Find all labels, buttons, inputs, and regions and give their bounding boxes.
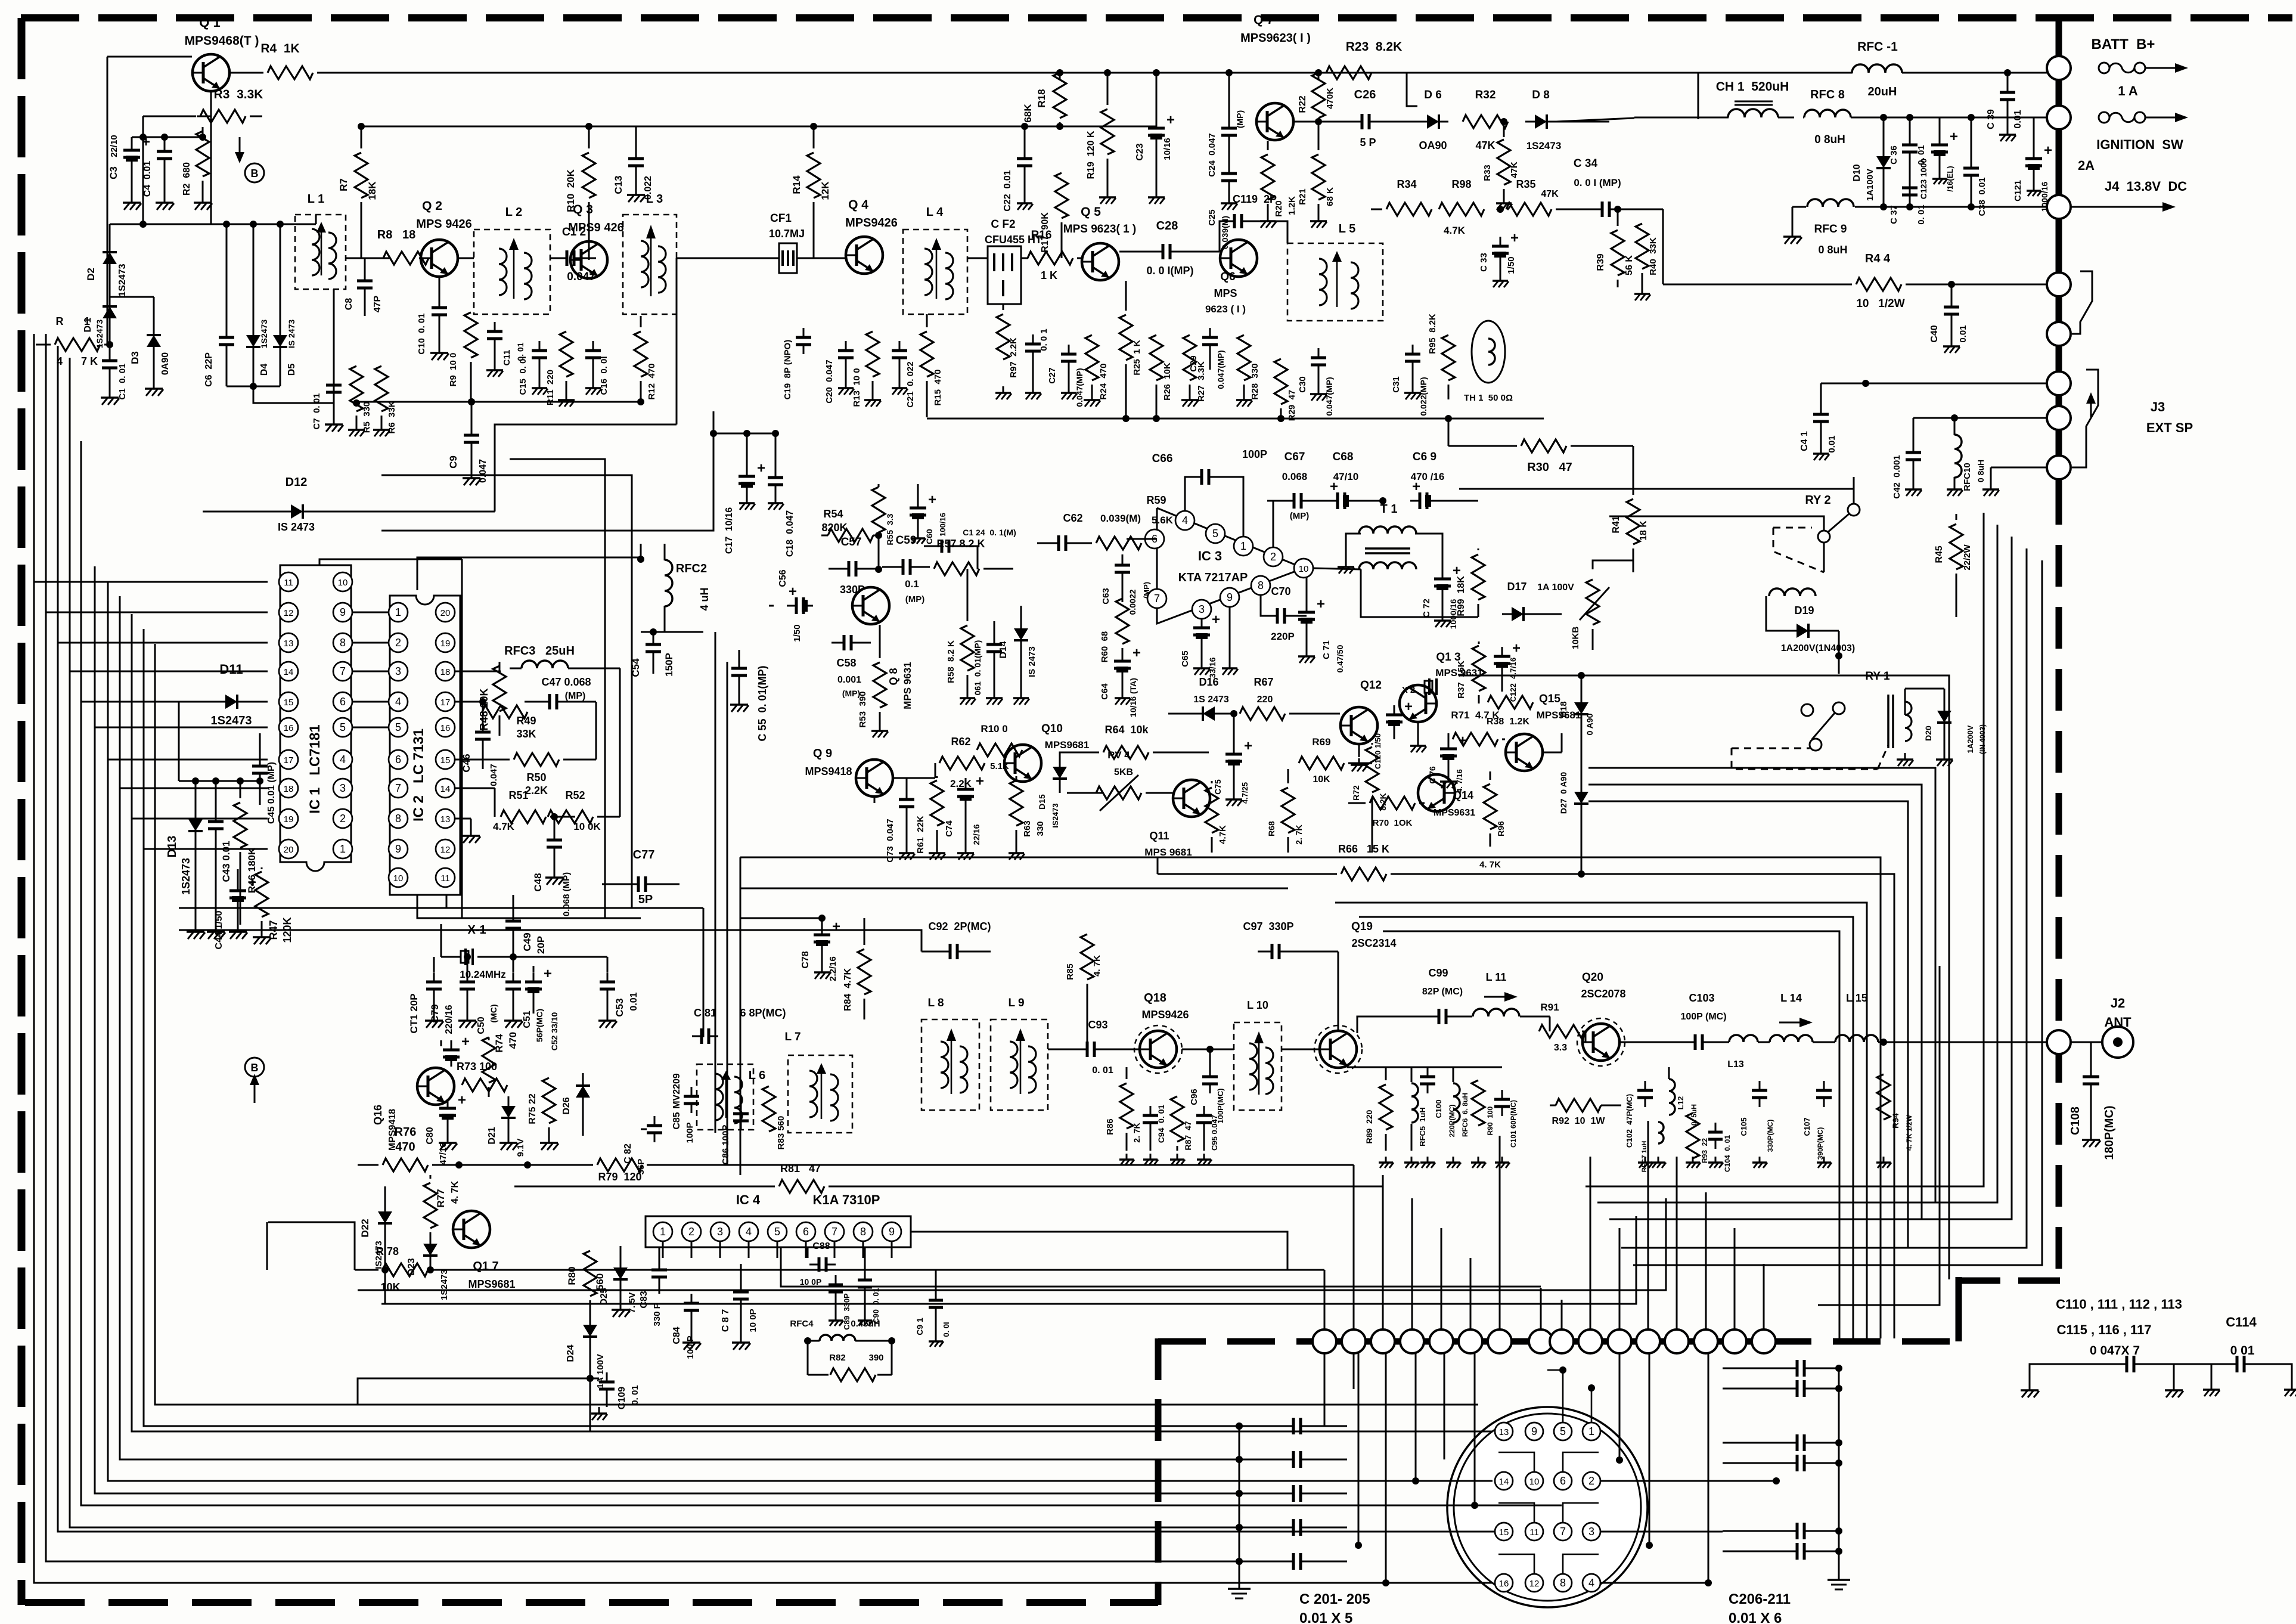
ground (1417, 739, 1419, 746)
svg-text:6: 6 (340, 696, 346, 708)
ground (1122, 692, 1124, 698)
svg-text:C101 60P(MC): C101 60P(MC) (1509, 1100, 1518, 1148)
svg-text:390P(MC): 390P(MC) (1816, 1127, 1825, 1160)
resistor R18 68K (1059, 73, 1061, 80)
wire (1353, 1165, 1355, 1329)
svg-text:2: 2 (340, 813, 346, 825)
svg-text:R45: R45 (1934, 546, 1944, 563)
svg-text:R58 8.2 K: R58 8.2 K (946, 640, 956, 683)
svg-text:R39: R39 (1596, 253, 1606, 271)
wire (1470, 1258, 1472, 1329)
svg-text:D27 0 A90: D27 0 A90 (1559, 772, 1568, 814)
svg-text:L 6: L 6 (749, 1069, 766, 1082)
resistor R26 10K (1156, 322, 1157, 331)
capacitor C2010 0.01 (1723, 1530, 1792, 1532)
wire (353, 612, 388, 613)
capacitor C70 220P (1261, 596, 1270, 616)
choke RFC5 1uH (1411, 1067, 1413, 1082)
svg-text:C6 9: C6 9 (1413, 451, 1436, 463)
capacitor C50 47P(MC) (467, 957, 468, 972)
wire (1593, 560, 1633, 569)
svg-text:MPS 9631: MPS 9631 (1435, 667, 1482, 678)
svg-text:C 71: C 71 (1321, 640, 1332, 659)
ground (1658, 1157, 1659, 1163)
svg-text:Q 4: Q 4 (848, 198, 868, 212)
wire (1884, 1042, 2047, 1043)
svg-text:D 6: D 6 (1424, 89, 1442, 101)
ground (1642, 287, 1643, 294)
svg-text:C56: C56 (778, 569, 788, 587)
svg-text:C85: C85 (672, 1112, 682, 1129)
connector P1 pin 6 (1554, 1472, 1572, 1490)
svg-text:R8 18: R8 18 (377, 228, 415, 241)
svg-text:12: 12 (284, 608, 294, 618)
resistor R63 330 (1016, 776, 1017, 782)
svg-text:8: 8 (860, 1226, 866, 1238)
inductor D19 relay coil (1769, 588, 1816, 596)
svg-text:R71 4.7 K: R71 4.7 K (1451, 709, 1500, 721)
wire (636, 126, 814, 128)
wire (1609, 516, 1824, 531)
IC2 pin 18 (436, 662, 455, 681)
wire (1633, 446, 1634, 483)
transistor Q5 MPS9623(I) (1082, 243, 1119, 280)
svg-text:9: 9 (1531, 1425, 1537, 1437)
ground (1107, 191, 1109, 197)
ground (1318, 215, 1320, 221)
svg-text:C51: C51 (522, 1011, 532, 1028)
transistor Q15 MPS9681 (1506, 734, 1543, 771)
svg-text:4. 7K: 4. 7K (1479, 860, 1501, 870)
capacitor C83 330P (659, 1247, 660, 1260)
resistor R91 3.3 (1549, 1016, 1551, 1031)
svg-text:5: 5 (340, 721, 346, 733)
wire IC2 bottom to ground (417, 895, 641, 918)
wire (178, 702, 180, 781)
IC3 pin 4 (1175, 511, 1194, 530)
wire (110, 296, 154, 298)
wire (254, 1082, 256, 1097)
svg-text:R77: R77 (435, 1189, 446, 1207)
wire (1338, 952, 1339, 1030)
IC3 pin 8 (1251, 576, 1270, 595)
svg-text:RFC10: RFC10 (1962, 463, 1972, 491)
capacitor C40 0.01 (1951, 284, 1953, 297)
svg-text:R75 22: R75 22 (528, 1093, 538, 1124)
capacitor C8 47P (364, 258, 366, 271)
resistor R47 120K (261, 867, 263, 869)
wire bus (46, 334, 1239, 1561)
svg-text:R70 1OK: R70 1OK (1373, 818, 1413, 828)
IC1 pin 14 (279, 662, 298, 681)
ground (739, 698, 740, 705)
inductor L15 (1835, 1035, 1878, 1042)
svg-text:R33: R33 (1482, 165, 1493, 181)
ground (965, 847, 967, 853)
ecap C75 4.7/25 (1233, 714, 1235, 745)
wire (334, 402, 381, 404)
svg-text:(MC): (MC) (489, 1004, 498, 1022)
IC2 pin 10 (389, 868, 408, 887)
svg-text:C6 22P: C6 22P (204, 352, 214, 387)
svg-text:19: 19 (440, 639, 451, 649)
ground (513, 1014, 514, 1021)
svg-text:C3: C3 (108, 166, 119, 179)
svg-text:1 K: 1 K (1041, 269, 1057, 281)
svg-text:820K: 820K (821, 522, 847, 534)
svg-text:C 55 0. 01(MP): C 55 0. 01(MP) (756, 665, 768, 741)
resistor R66 15K (1158, 873, 1337, 875)
svg-text:BATT B+: BATT B+ (2092, 36, 2155, 52)
capacitor C42 0.001 (1913, 418, 1915, 443)
svg-text:R3 3.3K: R3 3.3K (214, 88, 263, 101)
svg-text:16: 16 (284, 723, 294, 733)
feed-through terminal 15 on chassis bus (1723, 1329, 1746, 1353)
wire (455, 759, 510, 761)
diode D23 IS2473 (430, 1234, 432, 1241)
capacitor C61 0.01(MP) (994, 621, 995, 635)
resistor R83 560 (762, 1086, 775, 1132)
IC4 pin 6 (796, 1222, 815, 1241)
capacitor C39 0.01 (2007, 73, 2009, 83)
resistor R73 100 (462, 1078, 507, 1092)
svg-text:C99: C99 (1428, 967, 1448, 979)
svg-text:2SC2078: 2SC2078 (1581, 988, 1625, 1000)
svg-text:R60 68: R60 68 (1100, 631, 1110, 663)
svg-text:IGNITION SW: IGNITION SW (2096, 137, 2183, 152)
svg-text:10: 10 (1529, 1477, 1540, 1487)
svg-text:14: 14 (284, 667, 294, 677)
svg-text:R19 120 K: R19 120 K (1086, 131, 1096, 179)
inductor CH1 520uH (1728, 109, 1778, 117)
capacitor C28 0.01(MP) (1119, 258, 1147, 259)
ecap C123 1000/16(EL) (1939, 117, 1941, 135)
svg-text:RFC3 25uH: RFC3 25uH (504, 644, 575, 658)
svg-text:MPS9418: MPS9418 (805, 765, 852, 777)
wire (748, 1241, 750, 1258)
diode D26 (582, 1073, 584, 1076)
diode D24 1A100V (589, 1315, 591, 1331)
capacitor C67 0.068(MP) (1267, 500, 1282, 502)
svg-text:D15: D15 (1037, 794, 1047, 810)
resistor R67 220 (1240, 707, 1285, 720)
diode D13 1S2473 (195, 781, 197, 810)
svg-text:MPS9623( I ): MPS9623( I ) (1240, 32, 1311, 45)
capacitor C97 330P (1258, 951, 1264, 953)
ground (1715, 1157, 1717, 1163)
svg-text:R99 18K: R99 18K (1456, 576, 1466, 616)
resistor R17 90K (1061, 126, 1062, 149)
resistor R21 68K (1318, 122, 1320, 150)
wire (249, 116, 251, 117)
transistor Q8 MPS9631 (852, 587, 889, 624)
wire (495, 424, 677, 512)
svg-text:R73 100: R73 100 (457, 1061, 497, 1073)
resistor R59 5.6K (1096, 537, 1141, 550)
wire bus (1621, 548, 2027, 1248)
capacitor C18 0.047 (775, 433, 777, 468)
svg-text:220: 220 (1257, 695, 1273, 705)
svg-text:CF1: CF1 (770, 212, 792, 225)
transistor Q10 MPS9681 (1004, 745, 1041, 782)
connector P1 pin 15 (1495, 1523, 1513, 1541)
svg-text:R91: R91 (1540, 1002, 1559, 1013)
svg-text:10K: 10K (1313, 774, 1330, 785)
svg-text:R4 4: R4 4 (1865, 252, 1891, 265)
wire (1676, 1157, 1678, 1329)
svg-text:RFC6 6. 8uH: RFC6 6. 8uH (1461, 1093, 1469, 1137)
ground (2211, 1383, 2213, 1390)
svg-text:L 8: L 8 (927, 997, 944, 1009)
ground (1904, 753, 1906, 760)
resistor R24 470 (1091, 322, 1093, 331)
ground (202, 196, 204, 203)
wire (34, 581, 268, 583)
svg-text:390: 390 (868, 1353, 883, 1363)
svg-text:C75: C75 (1213, 779, 1223, 795)
svg-text:IS 2473: IS 2473 (287, 320, 296, 348)
thermistor TH1 500 (1472, 321, 1505, 383)
svg-text:4.7K: 4.7K (1444, 225, 1466, 236)
IC1 pin 13 (279, 633, 298, 652)
IC1 pin 1 (333, 839, 352, 859)
wire (381, 401, 471, 402)
wire (893, 777, 907, 779)
svg-text:C92 2P(MC): C92 2P(MC) (928, 921, 991, 932)
wire (713, 411, 715, 433)
ground (592, 382, 594, 388)
capacitor C26 5P (1361, 114, 1364, 129)
ground (906, 847, 908, 853)
wire (1415, 1353, 1417, 1481)
resistor R77 4.7K (430, 1175, 432, 1179)
wire (1358, 1353, 1360, 1545)
ground (1954, 483, 1956, 489)
wire (1662, 209, 1664, 284)
svg-text:9.1V: 9.1V (516, 1139, 526, 1157)
svg-text:C17 10/16: C17 10/16 (724, 507, 734, 554)
capacitor C58 0.001(MP) (831, 642, 834, 644)
svg-text:C 33: C 33 (1479, 253, 1489, 272)
svg-text:R24 470: R24 470 (1099, 364, 1109, 400)
svg-text:R30 47: R30 47 (1527, 461, 1572, 474)
wire (430, 1269, 1324, 1271)
resistor R55 3.3K (878, 484, 880, 487)
diode D1 1S2473 (109, 296, 111, 298)
op-amp IC4 KIA7310P body (646, 1216, 911, 1247)
wire (455, 671, 501, 672)
wire bus (1335, 903, 1867, 1338)
ground (1189, 393, 1191, 400)
svg-text:X 2: X 2 (1402, 685, 1416, 695)
capacitor C88 100P (807, 1247, 809, 1258)
wire (107, 57, 108, 345)
crystal X-1 10.24MHz (441, 956, 461, 958)
svg-text:C64: C64 (1100, 683, 1110, 700)
ground (566, 393, 567, 400)
svg-text:15: 15 (284, 698, 294, 708)
ground (1939, 173, 1941, 179)
svg-text:0.01 X 6: 0.01 X 6 (1729, 1610, 1782, 1624)
IC2 pin 8 (389, 809, 408, 828)
feed-through terminal 12 on chassis bus (1636, 1329, 1660, 1353)
capacitor C16 0.01 (585, 349, 601, 352)
wire (514, 1186, 775, 1188)
svg-text:9623 ( I ): 9623 ( I ) (1205, 303, 1246, 315)
svg-text:470K: 470K (1325, 88, 1335, 109)
svg-text:C73 0.047: C73 0.047 (885, 819, 895, 862)
feed-through terminal 8 on chassis bus (1529, 1329, 1553, 1353)
ground (1385, 1157, 1387, 1163)
svg-text:C53: C53 (614, 998, 625, 1016)
ground (1692, 1157, 1694, 1163)
zener D25 7.5V (620, 1246, 622, 1258)
capacitor C43 0.01 (215, 781, 217, 812)
ground (1126, 1154, 1128, 1160)
wire (356, 401, 641, 403)
wire (1417, 723, 1419, 739)
wire (740, 857, 741, 1175)
svg-text:17: 17 (440, 698, 451, 708)
svg-text:68 K: 68 K (1325, 187, 1335, 206)
svg-text:33K: 33K (516, 728, 536, 740)
jack symbol (2072, 271, 2092, 334)
IC2 pin 20 (436, 603, 455, 622)
svg-text:D26: D26 (561, 1097, 572, 1114)
diode D20 1A200V(IN4003) (1944, 689, 1946, 701)
svg-text:C23: C23 (1135, 143, 1145, 160)
IC4 pin 8 (854, 1222, 873, 1241)
resistor R19 120K (1107, 73, 1109, 105)
svg-text:IC 4: IC 4 (736, 1192, 761, 1207)
svg-text:+: + (458, 1092, 466, 1108)
svg-text:Q 7: Q 7 (1254, 13, 1274, 27)
ecap C33 1/50 (1500, 209, 1501, 224)
wire (1591, 1388, 1593, 1422)
svg-text:Q20: Q20 (1582, 971, 1603, 984)
capacitor C9 0.047 (471, 402, 473, 426)
svg-text:Q 8: Q 8 (888, 668, 899, 685)
capacitor C84 100P (684, 1302, 699, 1305)
svg-text:C66: C66 (1152, 453, 1173, 465)
resistor R64 10K (1042, 752, 1073, 763)
IC1 pin 20 (279, 839, 298, 859)
ground (1645, 1157, 1646, 1163)
filter CF1 10.7MJ (779, 243, 797, 273)
svg-text:Q16: Q16 (372, 1105, 384, 1125)
svg-text:7: 7 (340, 665, 346, 677)
svg-text:R26 10K: R26 10K (1162, 362, 1172, 401)
transistor Q18 MPS9426 (1140, 1031, 1177, 1068)
svg-text:D13: D13 (166, 836, 179, 858)
capacitor C51 56P(MC) (513, 957, 514, 972)
wire (210, 36, 212, 53)
svg-text:L 3: L 3 (646, 193, 663, 206)
svg-text:MPS9631: MPS9631 (1434, 808, 1475, 818)
transistor Q2 MPS9426 (419, 258, 420, 259)
resistor R40 33K (1642, 209, 1643, 219)
svg-text:C70: C70 (1271, 585, 1290, 597)
svg-text:20uH: 20uH (1868, 85, 1897, 98)
IC U1 LC7181 body (280, 565, 351, 871)
svg-text:OA90: OA90 (1419, 140, 1447, 151)
svg-text:5: 5 (774, 1226, 780, 1238)
wire (1838, 631, 1840, 674)
capacitor C63 0.0022(MP) (1122, 554, 1124, 556)
svg-text:R61 22K: R61 22K (916, 816, 926, 854)
svg-text:C 201- 205: C 201- 205 (1299, 1591, 1370, 1607)
svg-text:C38 0.01: C38 0.01 (1977, 177, 1987, 216)
svg-text:16: 16 (1499, 1579, 1509, 1589)
resistor R14 12K (813, 126, 815, 148)
ground (936, 847, 938, 853)
svg-text:4.7K: 4.7K (493, 821, 515, 832)
wire (740, 857, 1158, 859)
capacitor C46 0.047 (482, 702, 484, 723)
svg-text:1S2473: 1S2473 (439, 1269, 449, 1300)
ecap C121 1000/16 (2033, 117, 2035, 149)
resistor R70 10K (1348, 802, 1366, 804)
svg-text:0A90: 0A90 (160, 352, 170, 375)
svg-text:C89 330P: C89 330P (842, 1293, 851, 1330)
ground (1150, 1154, 1152, 1160)
svg-text:RV 4: RV 4 (1107, 749, 1130, 761)
svg-text:100P (MC): 100P (MC) (1680, 1012, 1726, 1022)
ground (381, 423, 383, 430)
svg-text:Q18: Q18 (1144, 991, 1166, 1005)
feed-through terminal 5 on chassis bus (1429, 1329, 1453, 1353)
capacitor C73 0.047 (906, 778, 908, 790)
svg-text:C114: C114 (2226, 1315, 2257, 1329)
svg-text:1A100V: 1A100V (1865, 169, 1875, 201)
svg-text:R4 1K: R4 1K (260, 42, 299, 55)
svg-text:MPS9468(T ): MPS9468(T ) (185, 34, 259, 48)
svg-text:C1 24 0. 1(M): C1 24 0. 1(M) (963, 528, 1016, 537)
ground (775, 497, 777, 503)
capacitor C66 100P (1185, 477, 1192, 510)
wire (455, 701, 483, 703)
svg-text:+: + (1166, 112, 1175, 128)
resistor R53 390 (879, 625, 881, 658)
capacitor C45 0.01(MP) (259, 733, 261, 757)
wire (1708, 1353, 1709, 1583)
ground (1016, 847, 1017, 853)
capacitor C77 5P (602, 884, 632, 885)
diode D19 1A200V(1N4003) (1797, 624, 1808, 638)
dashed coil box L1 (295, 215, 346, 289)
svg-text:D22: D22 (359, 1219, 371, 1237)
arrow on jack (2090, 401, 2092, 417)
wire bus (95, 566, 1239, 1493)
svg-text:0. 0 I(MP): 0. 0 I(MP) (1146, 265, 1193, 277)
IC1 pin 17 (279, 750, 298, 769)
svg-text:13: 13 (440, 814, 451, 825)
wire (619, 668, 621, 817)
wire (834, 1241, 836, 1258)
wire bus (1383, 931, 1839, 1338)
capacitor C119 2P (1220, 221, 1228, 252)
IC4 pin 7 (825, 1222, 844, 1241)
svg-text:0.047(MP): 0.047(MP) (1216, 350, 1225, 389)
wire (1385, 1353, 1387, 1583)
svg-text:C96: C96 (1189, 1089, 1199, 1105)
svg-text:K1A 7310P: K1A 7310P (813, 1192, 880, 1207)
svg-text:0.45uH: 0.45uH (851, 1319, 880, 1329)
resistor R65 4.7K (1211, 781, 1213, 783)
feed-through terminal 16 on chassis bus (1752, 1329, 1776, 1353)
svg-text:5: 5 (1560, 1425, 1566, 1437)
svg-text:7: 7 (1154, 593, 1160, 605)
